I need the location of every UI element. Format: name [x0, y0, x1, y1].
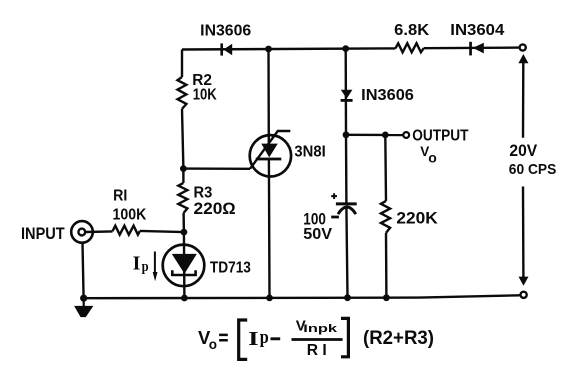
wire output horizontal [346, 134, 403, 137]
resistor 220K [381, 201, 390, 233]
diode IN3606 (vertical) triangle [341, 90, 353, 99]
wire input drop [83, 243, 84, 298]
capacitor plus sign [331, 193, 337, 199]
svg-text:50V: 50V [303, 226, 332, 243]
formula equals [219, 335, 228, 340]
junction node 220K top [382, 132, 389, 139]
svg-text:IN3606: IN3606 [361, 87, 414, 104]
transistor 3N81 circle [250, 135, 291, 176]
wire R3 to input junction [182, 213, 185, 232]
svg-text:I: I [133, 253, 141, 275]
svg-text:(R2+R3): (R2+R3) [363, 327, 434, 349]
svg-text:6.8K: 6.8K [394, 22, 430, 39]
formula fraction bar [292, 338, 343, 341]
diode IN3606 (top left) triangle [223, 44, 232, 55]
wire gate lead to 3N81 [183, 167, 250, 170]
junction node R1/R3/TD713 [181, 229, 188, 236]
wire 3N81 anode/cathode vertical [269, 49, 270, 297]
diode IN3606 (vertical) cathode bar [341, 99, 353, 102]
svg-text:RI: RI [113, 188, 127, 205]
wire left leg (R2 branch) [181, 50, 183, 78]
wire AC source vertical upper [522, 62, 525, 138]
wire top rail left segment [182, 48, 395, 49]
tunnel diode TD713 circle [163, 245, 205, 287]
formula minus [271, 337, 281, 340]
transistor 3N81 gate diagonal [250, 131, 290, 169]
svg-text:220K: 220K [396, 209, 438, 228]
wire bottom rail [84, 295, 520, 298]
svg-text:3N8I: 3N8I [294, 143, 325, 160]
AC source arrow down [519, 277, 529, 286]
svg-text:p: p [142, 259, 149, 275]
junction node output wire left [343, 131, 350, 138]
wire IN3606 vertical leg [345, 49, 348, 135]
junction node 220K bottom [383, 294, 390, 301]
ground symbol [76, 298, 91, 316]
resistor R1 [113, 226, 140, 235]
AC source top terminal [520, 44, 526, 50]
wire input to R1 [86, 230, 113, 233]
svg-text:p: p [260, 327, 269, 348]
tunnel diode TD713 cathode bracket [172, 270, 195, 275]
junction node 3N81 cathode bottom [266, 295, 273, 302]
output terminal circle [403, 132, 409, 138]
svg-text:100K: 100K [113, 206, 147, 223]
wire R1 to junction [140, 231, 184, 232]
junction node top rail / IN3606 leg [342, 45, 349, 52]
wire capacitor leg lower [346, 207, 347, 298]
svg-text:10K: 10K [193, 87, 218, 104]
wire top rail right segment [424, 46, 519, 49]
svg-text:R I: R I [307, 342, 327, 359]
wire capacitor leg upper [345, 135, 348, 203]
wire 220K leg lower [385, 233, 388, 297]
svg-text:IN3606: IN3606 [200, 22, 251, 39]
transistor 3N81 triangle [261, 144, 278, 158]
resistor R3 [178, 183, 187, 213]
svg-text:INPUT: INPUT [21, 224, 65, 243]
diode IN3604 cathode bar [469, 42, 472, 56]
svg-text:OUTPUT: OUTPUT [412, 127, 468, 144]
wire 220K leg upper [384, 135, 387, 201]
wire junction to R3 [182, 169, 184, 183]
formula left bracket [239, 320, 248, 359]
AC source bottom terminal [521, 292, 527, 298]
capacitor top plate [336, 202, 357, 205]
svg-text:R3: R3 [194, 185, 213, 202]
wire TD713 vertical [183, 232, 186, 298]
input terminal outer circle [71, 221, 93, 243]
junction node ground [80, 295, 87, 302]
svg-text:IN3604: IN3604 [450, 22, 504, 39]
wire R2 to junction [182, 109, 183, 169]
Ip current arrow [154, 252, 156, 274]
resistor R2 [178, 77, 187, 109]
AC source arrow up [518, 54, 528, 63]
diode IN3604 triangle [473, 43, 484, 54]
svg-text:60 CPS: 60 CPS [509, 161, 557, 178]
transistor 3N81 cathode bar [256, 158, 281, 161]
formula right bracket [341, 318, 348, 356]
svg-text:20V: 20V [509, 142, 537, 160]
svg-text:TD713: TD713 [210, 260, 251, 277]
svg-text:o: o [209, 337, 217, 352]
wire AC source vertical lower [522, 187, 525, 278]
input terminal inner circle [78, 229, 85, 236]
junction node TD bottom [181, 295, 188, 302]
junction node capacitor bottom [344, 294, 351, 301]
diode IN3606 (top left) cathode bar [220, 43, 223, 55]
svg-text:Inpk: Inpk [303, 323, 338, 335]
svg-text:I: I [248, 328, 259, 350]
capacitor bottom plate (curved) [338, 207, 356, 214]
tunnel diode TD713 triangle [172, 254, 197, 274]
svg-text:220Ω: 220Ω [194, 200, 237, 218]
junction node R2/top rail at 3N81 anode [265, 46, 272, 53]
resistor 6.8K [395, 43, 423, 52]
svg-text:o: o [428, 149, 437, 165]
junction node R2/R3/gate [180, 165, 187, 172]
